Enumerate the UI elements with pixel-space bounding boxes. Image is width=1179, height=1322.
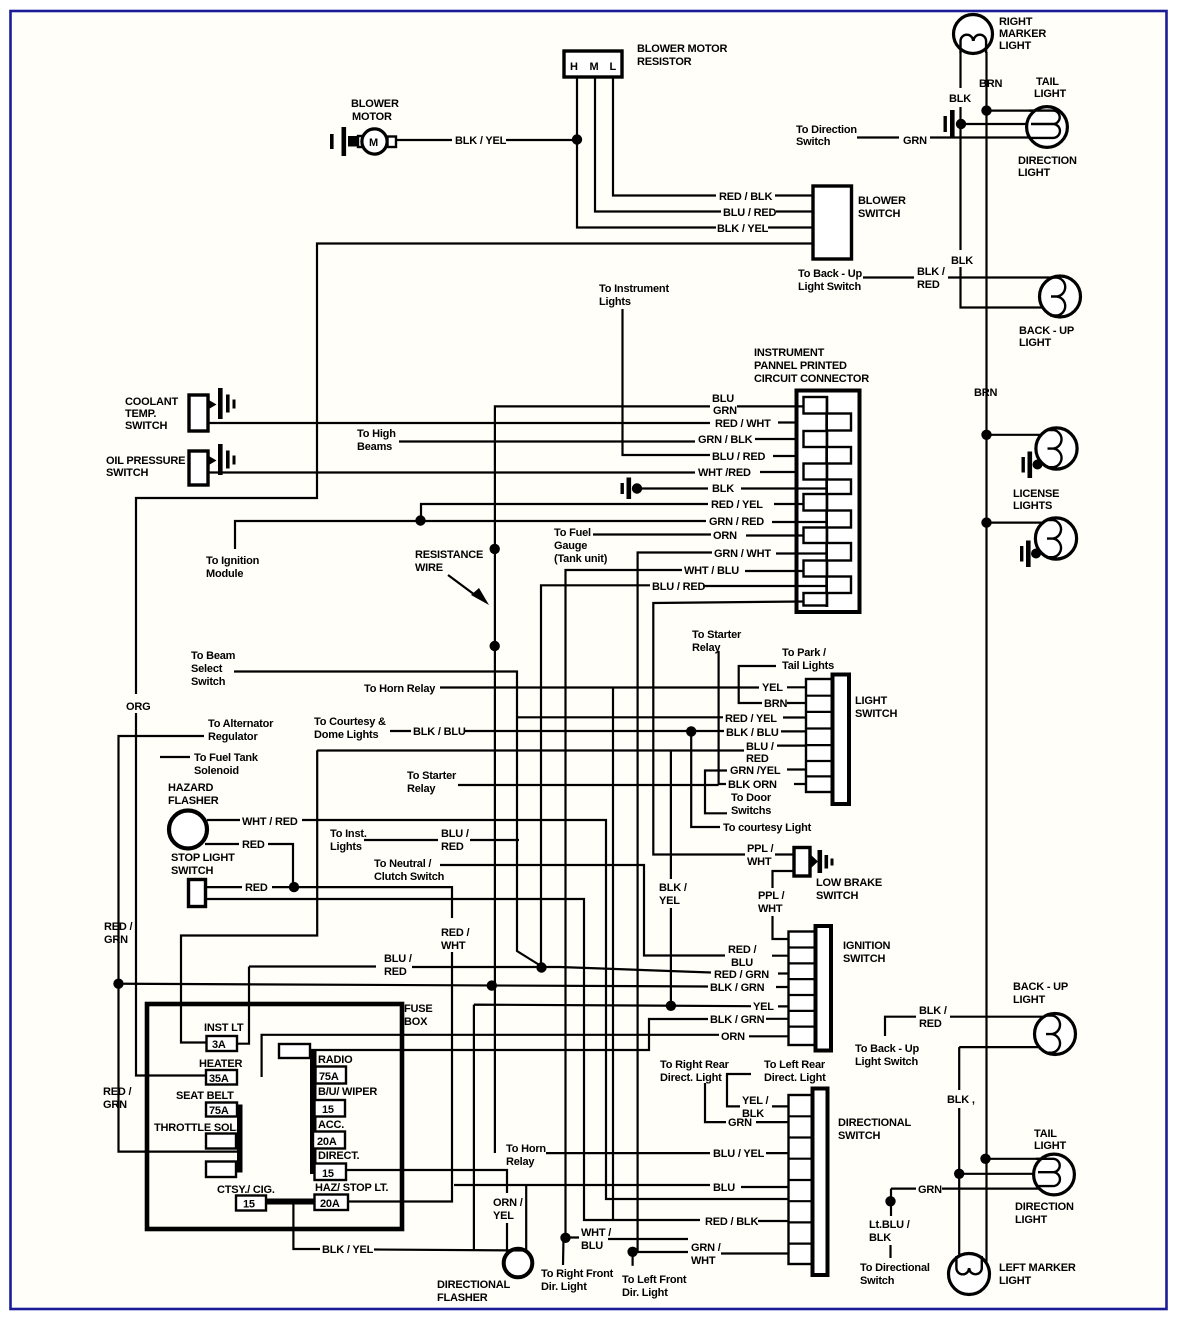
svg-text:20A: 20A (320, 1198, 340, 1210)
svg-text:BLU /: BLU / (746, 741, 774, 753)
svg-text:RED / GRN: RED / GRN (714, 969, 769, 981)
svg-text:To Right Rear: To Right Rear (660, 1059, 730, 1071)
svg-text:BLU: BLU (731, 957, 753, 969)
svg-text:CIRCUIT CONNECTOR: CIRCUIT CONNECTOR (754, 373, 869, 385)
svg-text:WHT / BLU: WHT / BLU (684, 565, 739, 577)
svg-text:LIGHT: LIGHT (999, 40, 1031, 52)
svg-text:BOX: BOX (404, 1016, 428, 1028)
svg-text:To Horn: To Horn (506, 1143, 546, 1155)
svg-text:To Instrument: To Instrument (599, 283, 669, 295)
wire BLK/BLU courtesy row (390, 730, 806, 733)
svg-text:RED: RED (441, 841, 464, 853)
svg-text:M: M (369, 137, 378, 149)
node BLK to tail (954, 1169, 964, 1179)
svg-text:BRN: BRN (974, 387, 997, 399)
directional flasher (504, 1249, 533, 1278)
svg-text:LIGHT: LIGHT (1015, 1214, 1047, 1226)
svg-text:To Inst.: To Inst. (330, 828, 367, 840)
wire WHT/BLU row drop (566, 570, 804, 1238)
svg-text:RED / WHT: RED / WHT (715, 418, 771, 430)
svg-text:GRN / BLK: GRN / BLK (698, 434, 753, 446)
svg-text:Direct. Light: Direct. Light (764, 1072, 826, 1084)
wire GRN/WHT drop end to left front dir light (631, 1252, 633, 1266)
svg-text:SWITCH: SWITCH (838, 1130, 880, 1142)
wire BLK/GRN bus row (119, 984, 789, 987)
svg-text:IGNITION: IGNITION (843, 940, 891, 952)
svg-text:Lt.BLU /: Lt.BLU / (869, 1219, 910, 1231)
wire GRN/WHT row long drop (638, 553, 827, 1252)
svg-text:Switchs: Switchs (731, 805, 771, 817)
svg-text:RESISTANCE: RESISTANCE (415, 549, 483, 561)
blower motor ground (330, 127, 358, 156)
svg-text:HAZARD: HAZARD (168, 782, 213, 794)
svg-text:BLU / RED: BLU / RED (712, 451, 765, 463)
svg-text:DIRECTIONAL: DIRECTIONAL (437, 1279, 510, 1291)
svg-text:RED: RED (746, 753, 769, 765)
svg-text:BLU: BLU (713, 1182, 735, 1194)
wire ORN row to fuel gauge (593, 535, 803, 536)
wire row13 to low brake PPL/WHT (653, 602, 803, 855)
svg-text:RED: RED (245, 882, 268, 894)
svg-text:Tail Lights: Tail Lights (782, 660, 834, 672)
svg-text:LIGHT: LIGHT (855, 695, 887, 707)
wire GRN/RED row to ignition module (235, 521, 827, 549)
svg-text:GRN: GRN (103, 1099, 127, 1111)
svg-text:LIGHT: LIGHT (999, 1275, 1031, 1287)
svg-text:GRN: GRN (903, 135, 927, 147)
resistance wire nodes (490, 544, 500, 554)
svg-text:SWITCH: SWITCH (816, 890, 858, 902)
wire to fuel tank solenoid stub (160, 756, 190, 758)
wire GRN/WHT row 8 (635, 1252, 788, 1254)
svg-text:BLU / YEL: BLU / YEL (713, 1148, 765, 1160)
wire BLK node to tail bulb (959, 1173, 1048, 1175)
svg-text:WHT /: WHT / (581, 1227, 611, 1239)
svg-text:OIL PRESSURE: OIL PRESSURE (106, 455, 185, 467)
svg-text:SWITCH: SWITCH (855, 708, 897, 720)
svg-text:Beams: Beams (357, 441, 392, 453)
svg-text:BACK - UP: BACK - UP (1019, 325, 1074, 337)
svg-text:WHT: WHT (747, 856, 772, 868)
svg-text:To Right Front: To Right Front (541, 1268, 614, 1280)
svg-text:TEMP.: TEMP. (125, 408, 156, 420)
radio spine bar (310, 1049, 317, 1174)
svg-text:To Starter: To Starter (692, 629, 742, 641)
junction node at H wire (572, 134, 582, 144)
back-up light bulb top (1040, 276, 1081, 317)
BLK wire from marker to ground and back-up light (961, 52, 1053, 308)
directional teeth (789, 1095, 813, 1264)
wire PPL/WHT from row13 label above; low brake switch box (794, 848, 810, 877)
node RED/YEL joins GRN/RED (415, 515, 425, 525)
svg-text:RED / BLK: RED / BLK (705, 1216, 758, 1228)
svg-text:LIGHT: LIGHT (1013, 994, 1045, 1006)
svg-text:GRN / WHT: GRN / WHT (714, 548, 771, 560)
svg-text:Gauge: Gauge (554, 540, 587, 552)
svg-text:LIGHTS: LIGHTS (1013, 500, 1052, 512)
node GRN/WHT (627, 1247, 637, 1257)
svg-text:Dome Lights: Dome Lights (314, 729, 378, 741)
svg-text:BRN: BRN (979, 78, 1002, 90)
wire GRN to tail bulb (891, 1187, 1039, 1189)
svg-text:Lights: Lights (599, 296, 631, 308)
wire GRN row to resistance riser (495, 406, 803, 1153)
svg-text:BLK /: BLK / (917, 266, 945, 278)
node license 2 (981, 517, 991, 527)
svg-text:TAIL: TAIL (1036, 76, 1059, 88)
wire small box to ignition BLK/GRN 2 (310, 1019, 788, 1050)
connector spine (825, 396, 828, 607)
connector U1 outer box (797, 391, 860, 613)
svg-text:BACK - UP: BACK - UP (1013, 981, 1068, 993)
svg-text:YEL: YEL (762, 682, 783, 694)
svg-text:THROTTLE SOL.: THROTTLE SOL. (154, 1122, 239, 1134)
svg-text:RESISTOR: RESISTOR (637, 56, 692, 68)
svg-text:To Courtesy &: To Courtesy & (314, 716, 386, 728)
wire coolant to connector RED/WHT (208, 421, 826, 424)
tail light bulb bottom (1034, 1154, 1075, 1195)
svg-text:DIRECTION: DIRECTION (1018, 155, 1077, 167)
wire BLK/YEL labelled riser (670, 751, 672, 1006)
svg-text:Light Switch: Light Switch (855, 1056, 918, 1068)
wire BLK row (637, 487, 826, 489)
ground on BLK wire (944, 110, 955, 138)
svg-text:M: M (590, 61, 599, 73)
wire GRN row 2 (705, 1083, 788, 1122)
svg-text:To Fuel Tank: To Fuel Tank (194, 752, 259, 764)
svg-text:BLOWER: BLOWER (351, 98, 399, 110)
svg-text:BLU /: BLU / (441, 828, 469, 840)
svg-text:L: L (610, 61, 617, 73)
wire WHT/BLU to GRN/WHT label (566, 1238, 688, 1240)
blower switch box (813, 186, 852, 259)
svg-text:Switch: Switch (860, 1275, 895, 1287)
svg-text:Clutch Switch: Clutch Switch (374, 871, 445, 883)
wire courtesy drop (691, 731, 720, 827)
wire BLK/YEL from fuse box to BLU directional (293, 1185, 788, 1252)
svg-text:BLK / YEL: BLK / YEL (717, 223, 769, 235)
svg-text:RED /: RED / (728, 944, 756, 956)
svg-text:MOTOR: MOTOR (352, 111, 392, 123)
svg-text:B/U/ WIPER: B/U/ WIPER (318, 1086, 377, 1098)
svg-text:75A: 75A (209, 1105, 229, 1117)
node WHT/BLU (560, 1233, 570, 1243)
svg-text:RADIO: RADIO (318, 1054, 353, 1066)
svg-text:RED / YEL: RED / YEL (725, 713, 777, 725)
svg-text:RED: RED (384, 966, 407, 978)
svg-text:LIGHT: LIGHT (1034, 1140, 1066, 1152)
svg-text:Relay: Relay (407, 783, 436, 795)
svg-text:TAIL: TAIL (1034, 1128, 1057, 1140)
svg-text:DIRECTION: DIRECTION (1015, 1201, 1074, 1213)
svg-text:ORN /: ORN / (493, 1197, 523, 1209)
svg-text:RED / YEL: RED / YEL (711, 499, 763, 511)
svg-text:35A: 35A (209, 1073, 229, 1085)
svg-text:Dir. Light: Dir. Light (541, 1281, 587, 1293)
node on RED/GRN bus (113, 979, 123, 989)
wire low brake to ignition PPL/WHT (773, 871, 795, 939)
mystery riser (612, 688, 614, 1221)
light switch teeth (806, 679, 833, 792)
svg-text:To Alternator: To Alternator (208, 718, 274, 730)
svg-text:To courtesy Light: To courtesy Light (723, 822, 812, 834)
svg-text:DIRECTIONAL: DIRECTIONAL (838, 1117, 911, 1129)
svg-text:SWITCH: SWITCH (106, 467, 148, 479)
svg-text:BLU / RED: BLU / RED (652, 581, 705, 593)
svg-text:SWITCH: SWITCH (858, 208, 900, 220)
wire BLU/RED row 12 drop (541, 585, 827, 967)
svg-text:RIGHT: RIGHT (999, 16, 1033, 28)
wire GRN bracket to directional switch label (890, 1189, 892, 1216)
wire oil pressure to connector WHT/RED (208, 471, 803, 474)
svg-text:Switch: Switch (796, 136, 831, 148)
svg-text:ORN: ORN (713, 530, 737, 542)
wire starter relay riser to BLK ORN (719, 651, 806, 784)
ignition body (816, 926, 832, 1051)
svg-text:To Fuel: To Fuel (554, 527, 591, 539)
wire high beams to connector GRN/BLK (399, 439, 803, 442)
wire YEL/BLK bracket (727, 1074, 788, 1106)
node license 1 (981, 430, 991, 440)
svg-text:FLASHER: FLASHER (437, 1292, 488, 1304)
svg-text:BLK / YEL: BLK / YEL (322, 1244, 374, 1256)
svg-text:Direct. Light: Direct. Light (660, 1072, 722, 1084)
license light bulb 2 (1035, 518, 1076, 559)
wire motor to junction BLK/YEL (396, 139, 577, 141)
svg-text:BLK / GRN: BLK / GRN (710, 982, 765, 994)
svg-text:ACC.: ACC. (318, 1119, 344, 1131)
svg-text:CTSY./ CIG.: CTSY./ CIG. (217, 1184, 275, 1196)
svg-text:To Back - Up: To Back - Up (798, 268, 862, 280)
blower motor M1 (358, 129, 396, 154)
svg-text:Solenoid: Solenoid (194, 765, 239, 777)
svg-text:BLK: BLK (712, 483, 734, 495)
svg-text:To Horn Relay: To Horn Relay (364, 683, 436, 695)
svg-text:BLK /: BLK / (919, 1005, 947, 1017)
svg-text:BRN: BRN (764, 698, 787, 710)
svg-text:Dir. Light: Dir. Light (622, 1287, 668, 1299)
svg-text:RED: RED (917, 279, 940, 291)
svg-text:RED / BLK: RED / BLK (719, 191, 772, 203)
svg-text:LIGHT: LIGHT (1034, 88, 1066, 100)
svg-text:FUSE: FUSE (404, 1003, 433, 1015)
svg-text:GRN / RED: GRN / RED (709, 516, 764, 528)
ground license 1 (1022, 452, 1043, 479)
BRN wire long riser (985, 52, 987, 1262)
svg-text:PANNEL PRINTED: PANNEL PRINTED (754, 360, 847, 372)
fuse box outline (147, 1004, 402, 1229)
ignition teeth (789, 932, 816, 1046)
svg-text:To Ignition: To Ignition (206, 555, 260, 567)
svg-text:LOW BRAKE: LOW BRAKE (816, 877, 882, 889)
wire ORG riser continues to heater fuse (136, 713, 206, 1076)
back-up light bracket BLK/RED (885, 1017, 916, 1036)
svg-text:15: 15 (322, 1104, 334, 1116)
svg-text:WHT: WHT (441, 940, 466, 952)
wire GRN/YEL row and door switches (705, 770, 806, 814)
wire RED/YEL row from beam select drop (517, 716, 806, 718)
svg-text:Select: Select (191, 663, 223, 675)
svg-text:GRN: GRN (104, 934, 128, 946)
svg-text:STOP LIGHT: STOP LIGHT (171, 852, 235, 864)
svg-text:Switch: Switch (191, 676, 226, 688)
svg-text:HEATER: HEATER (199, 1058, 242, 1070)
svg-text:WHT /RED: WHT /RED (698, 467, 751, 479)
svg-text:GRN: GRN (728, 1117, 752, 1129)
svg-text:INSTRUMENT: INSTRUMENT (754, 347, 825, 359)
ground license 2 (1020, 541, 1041, 568)
svg-text:To Back - Up: To Back - Up (855, 1043, 919, 1055)
hazard flasher (169, 811, 207, 849)
svg-text:H: H (570, 61, 578, 73)
svg-text:To Directional: To Directional (860, 1262, 930, 1274)
svg-text:20A: 20A (317, 1136, 337, 1148)
left marker light bulb (949, 1254, 990, 1295)
back-up light bulb bottom (1035, 1014, 1076, 1055)
svg-text:15: 15 (322, 1168, 334, 1180)
license light bulb 1 (1036, 428, 1077, 469)
svg-text:YEL: YEL (753, 1001, 774, 1013)
svg-text:PPL /: PPL / (758, 890, 784, 902)
svg-text:BLOWER MOTOR: BLOWER MOTOR (637, 43, 728, 55)
svg-text:LIGHT: LIGHT (1018, 167, 1050, 179)
svg-text:Light Switch: Light Switch (798, 281, 861, 293)
svg-text:BLU / RED: BLU / RED (723, 207, 776, 219)
blower motor resistor box H M L (564, 51, 622, 77)
svg-text:BLK ORN: BLK ORN (728, 779, 777, 791)
svg-text:WIRE: WIRE (415, 562, 443, 574)
svg-text:To Starter: To Starter (407, 770, 457, 782)
svg-text:Relay: Relay (506, 1156, 535, 1168)
node BRN to tail light (981, 105, 991, 115)
svg-text:MARKER: MARKER (999, 28, 1046, 40)
svg-text:RED /: RED / (104, 921, 132, 933)
svg-text:BLK / BLU: BLK / BLU (726, 727, 779, 739)
svg-text:Regulator: Regulator (208, 731, 258, 743)
svg-text:Relay: Relay (692, 642, 721, 654)
wire WHT/RED from hazard to directional row6 (207, 820, 788, 1199)
svg-text:FLASHER: FLASHER (168, 795, 219, 807)
svg-text:INST LT: INST LT (204, 1022, 244, 1034)
svg-text:To Direction: To Direction (796, 124, 857, 136)
svg-text:GRN: GRN (918, 1184, 942, 1196)
svg-text:BLK / BLU: BLK / BLU (413, 726, 466, 738)
svg-text:To High: To High (357, 428, 396, 440)
node RED junction (289, 882, 299, 892)
svg-text:SEAT BELT: SEAT BELT (176, 1090, 234, 1102)
wire heater 35A to ignition ORN (262, 1035, 788, 1077)
svg-text:LIGHT: LIGHT (1019, 337, 1051, 349)
svg-text:LEFT MARKER: LEFT MARKER (999, 1262, 1076, 1274)
wire to back-up light (top) BLK/RED (863, 276, 1056, 278)
wire DIRECT fuse to horn relay / directional flasher (346, 1170, 507, 1254)
wire YEL row with node (474, 1005, 788, 1250)
svg-text:To Neutral /: To Neutral / (374, 858, 431, 870)
svg-text:Lights: Lights (330, 841, 362, 853)
wire RED/YEL row (421, 504, 803, 519)
wire ground node to tail light (961, 123, 1042, 125)
svg-text:GRN /YEL: GRN /YEL (730, 765, 781, 777)
connector right teeth (827, 414, 851, 594)
svg-text:SWITCH: SWITCH (125, 420, 167, 432)
wire WHT/BLU drop end to right front dir light (562, 1238, 565, 1265)
svg-text:RED /: RED / (441, 927, 469, 939)
svg-text:(Tank unit): (Tank unit) (554, 553, 608, 565)
wire BLK/RED to back-up bulb (950, 1016, 1052, 1018)
svg-text:To Beam: To Beam (191, 650, 236, 662)
svg-text:GRN: GRN (713, 405, 737, 417)
wire stop light lower to RED/BLK directional (206, 899, 789, 1221)
svg-text:BLOWER: BLOWER (858, 195, 906, 207)
svg-text:COOLANT: COOLANT (125, 396, 178, 408)
svg-text:YEL /: YEL / (742, 1095, 768, 1107)
svg-text:WHT: WHT (758, 903, 783, 915)
svg-text:HAZ/ STOP LT.: HAZ/ STOP LT. (315, 1182, 388, 1194)
svg-text:BLK / GRN: BLK / GRN (710, 1014, 765, 1026)
directional body (813, 1089, 828, 1276)
wire M to blower switch (595, 77, 813, 212)
wire instrument lights to connector BLU/RED (623, 309, 828, 456)
svg-text:YEL: YEL (493, 1210, 514, 1222)
svg-text:75A: 75A (319, 1071, 339, 1083)
svg-text:GRN /: GRN / (691, 1242, 721, 1254)
svg-text:To Park /: To Park / (782, 647, 826, 659)
node tail light BRN (980, 1154, 990, 1164)
wire BLU/RED row to light switch (317, 746, 806, 751)
wire BLK riser to back-up bulb (959, 1047, 1050, 1262)
wire BRN node to tail bulb (986, 1158, 1051, 1160)
wire 3A fuse riser to RED/GRN ignition row (237, 967, 788, 1044)
svg-text:3A: 3A (212, 1039, 226, 1051)
wire RED from hazard down to stop light row (205, 844, 293, 887)
svg-text:Module: Module (206, 568, 243, 580)
svg-text:BLK: BLK (949, 93, 971, 105)
node on RED/GRN row (536, 962, 546, 972)
svg-text:SWITCH: SWITCH (843, 953, 885, 965)
svg-text:PPL /: PPL / (747, 843, 773, 855)
coolant temp switch (189, 388, 236, 431)
RADIO column small box (279, 1044, 310, 1058)
thick link CTSY to HAZ (266, 1199, 315, 1205)
seat belt spine bar (237, 1105, 243, 1173)
wire RED/WHT drop continues to 20A fuse wire (348, 952, 452, 1202)
light switch body (833, 675, 850, 805)
svg-text:BLK ,: BLK , (947, 1094, 975, 1106)
svg-text:RED: RED (919, 1018, 942, 1030)
svg-text:BLU /: BLU / (384, 953, 412, 965)
svg-text:SWITCH: SWITCH (171, 865, 213, 877)
wire BLU/RED light switch feed to INST LT fuse (181, 750, 317, 1042)
svg-text:ORN: ORN (721, 1031, 745, 1043)
wire L to blower switch (613, 77, 813, 196)
svg-text:To Door: To Door (731, 792, 772, 804)
svg-text:LICENSE: LICENSE (1013, 488, 1059, 500)
svg-text:WHT: WHT (691, 1255, 716, 1267)
wire to license light 1 (987, 434, 1054, 436)
wire RED row from stop light switch to RED/WHT drop (206, 887, 453, 918)
svg-text:To Left Front: To Left Front (622, 1274, 687, 1286)
svg-text:BLK: BLK (951, 255, 973, 267)
node courtesy drop (686, 726, 696, 736)
svg-text:RED: RED (242, 839, 265, 851)
right marker light bulb (954, 15, 993, 54)
svg-text:BLK /: BLK / (659, 882, 687, 894)
svg-text:ORG: ORG (126, 701, 150, 713)
oil pressure switch (189, 444, 236, 485)
wire feed to blower switch from left riser (136, 244, 813, 695)
svg-text:To Left Rear: To Left Rear (764, 1059, 826, 1071)
ground to BLK row (621, 478, 632, 500)
